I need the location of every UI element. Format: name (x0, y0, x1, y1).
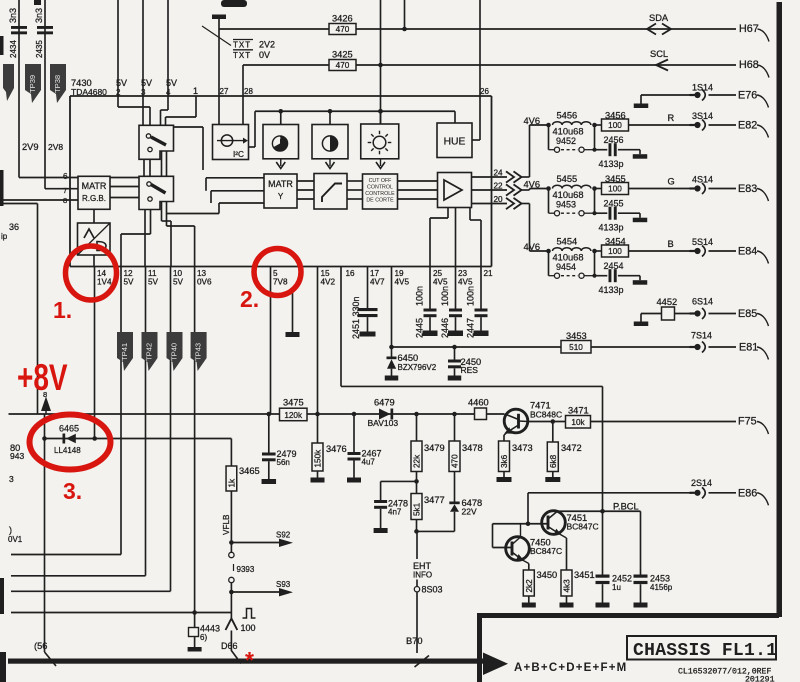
svg-text:100: 100 (608, 247, 622, 256)
svg-text:1: 1 (193, 86, 198, 96)
svg-text:5V: 5V (124, 278, 135, 287)
svg-text:4133p: 4133p (599, 285, 624, 295)
svg-text:470: 470 (336, 61, 350, 70)
svg-text:8: 8 (63, 196, 67, 205)
svg-text:5454: 5454 (557, 237, 578, 247)
svg-text:9452: 9452 (556, 136, 576, 146)
svg-text:4n7: 4n7 (388, 508, 402, 517)
svg-text:100n: 100n (440, 286, 450, 306)
svg-text:3425: 3425 (332, 50, 353, 60)
svg-text:0V: 0V (259, 50, 270, 60)
svg-text:Y: Y (278, 192, 284, 201)
svg-text:4V6: 4V6 (524, 180, 541, 190)
svg-text:5V: 5V (148, 278, 159, 287)
svg-text:CONTROL: CONTROL (367, 185, 393, 191)
svg-text:470: 470 (451, 454, 460, 468)
svg-text:100n: 100n (466, 286, 476, 306)
svg-text:B: B (668, 239, 674, 249)
svg-text:LL4148: LL4148 (54, 446, 81, 455)
svg-text:I²C: I²C (233, 150, 244, 159)
svg-text:2453: 2453 (650, 574, 670, 584)
svg-text:2V9: 2V9 (22, 142, 39, 152)
svg-text:5V: 5V (173, 278, 184, 287)
svg-text:20: 20 (494, 195, 504, 204)
svg-text:2V8: 2V8 (48, 142, 63, 152)
svg-text:TP41: TP41 (120, 343, 129, 361)
svg-text:4V5: 4V5 (395, 278, 410, 287)
svg-text:4133p: 4133p (599, 159, 624, 169)
svg-text:4443: 4443 (200, 624, 220, 634)
svg-text:1u: 1u (612, 583, 621, 592)
svg-text:2456: 2456 (604, 135, 624, 145)
svg-text:5V: 5V (141, 78, 152, 88)
svg-text:3479: 3479 (424, 443, 445, 453)
svg-text:100n: 100n (415, 286, 425, 306)
svg-text:56n: 56n (277, 458, 290, 467)
svg-text:3471: 3471 (568, 406, 589, 416)
svg-text:MATR: MATR (268, 179, 293, 189)
svg-text:2451 330n: 2451 330n (351, 296, 361, 339)
svg-text:8: 8 (43, 390, 47, 399)
svg-text:0V1: 0V1 (8, 535, 23, 544)
svg-text:*: * (245, 647, 254, 673)
svg-text:510: 510 (569, 343, 583, 352)
svg-text:S93: S93 (276, 580, 291, 589)
svg-text:9453: 9453 (556, 200, 576, 210)
svg-text:5V: 5V (116, 78, 127, 88)
svg-text:22V: 22V (462, 507, 477, 517)
svg-text:BC847C: BC847C (530, 546, 562, 556)
svg-text:E81: E81 (739, 342, 758, 354)
svg-text:28: 28 (244, 87, 253, 96)
svg-text:TP38: TP38 (53, 75, 62, 93)
svg-text:2434: 2434 (9, 40, 18, 58)
svg-text:3465: 3465 (239, 466, 260, 476)
svg-text:3: 3 (9, 474, 14, 484)
svg-text:TP42: TP42 (145, 343, 154, 361)
svg-text:943: 943 (10, 451, 24, 461)
svg-text:INFO: INFO (413, 571, 432, 580)
svg-text:3475: 3475 (283, 398, 304, 408)
svg-text:3477: 3477 (424, 495, 445, 505)
svg-text:1k: 1k (228, 478, 237, 488)
svg-text:7S14: 7S14 (691, 331, 712, 341)
svg-text:CHASSIS FL1.1: CHASSIS FL1.1 (633, 641, 777, 661)
svg-text:4V5: 4V5 (458, 278, 473, 287)
svg-text:3478: 3478 (462, 443, 483, 453)
svg-text:D66: D66 (221, 641, 238, 651)
svg-text:4156p: 4156p (650, 583, 673, 592)
svg-text:RES: RES (461, 365, 479, 375)
svg-text:SCL: SCL (650, 49, 668, 59)
svg-text:2.: 2. (240, 286, 259, 312)
svg-text:2k2: 2k2 (525, 579, 534, 593)
svg-text:5k1: 5k1 (413, 502, 422, 516)
svg-text:4460: 4460 (468, 398, 489, 408)
svg-text:26: 26 (480, 87, 489, 96)
svg-text:6S14: 6S14 (692, 297, 713, 307)
svg-text:TXT: TXT (233, 51, 251, 60)
svg-text:22k: 22k (413, 454, 422, 468)
svg-text:1.: 1. (53, 297, 72, 323)
svg-text:201291: 201291 (745, 676, 775, 682)
svg-text:3453: 3453 (566, 331, 587, 341)
svg-text:100: 100 (608, 185, 622, 194)
svg-text:3473: 3473 (512, 443, 533, 453)
svg-text:4V5: 4V5 (433, 278, 448, 287)
svg-text:E85: E85 (738, 308, 757, 320)
svg-text:8S03: 8S03 (422, 585, 443, 595)
svg-text:G: G (668, 177, 675, 187)
svg-text:): ) (9, 525, 12, 535)
svg-text:7: 7 (63, 186, 67, 195)
svg-text:3: 3 (141, 88, 146, 97)
svg-text:6450: 6450 (398, 353, 419, 363)
svg-text:4V2: 4V2 (321, 278, 336, 287)
svg-text:ip: ip (1, 232, 8, 241)
svg-text:EHT: EHT (413, 561, 432, 571)
svg-text:2: 2 (116, 88, 121, 97)
svg-text:10k: 10k (571, 418, 585, 427)
svg-text:3450: 3450 (537, 570, 558, 580)
svg-text:VFLB: VFLB (222, 514, 231, 535)
svg-text:TP40: TP40 (170, 343, 179, 361)
svg-text:3451: 3451 (574, 570, 595, 580)
svg-text:6: 6 (63, 172, 68, 181)
svg-text:A+B+C+D+E+F+M: A+B+C+D+E+F+M (514, 662, 627, 674)
svg-text:E76: E76 (738, 90, 757, 102)
svg-text:21: 21 (484, 269, 494, 278)
svg-text:3k6: 3k6 (500, 454, 509, 468)
svg-text:4V7: 4V7 (370, 278, 385, 287)
svg-text:HUE: HUE (444, 137, 466, 148)
svg-text:H67: H67 (739, 23, 759, 35)
svg-text:9454: 9454 (556, 262, 576, 272)
svg-text:2447: 2447 (466, 318, 476, 338)
svg-text:6k8: 6k8 (549, 454, 558, 468)
svg-text:MATR: MATR (82, 181, 107, 191)
svg-text:E83: E83 (738, 183, 757, 195)
svg-text:4133p: 4133p (599, 223, 624, 233)
svg-text:4k3: 4k3 (563, 579, 572, 593)
svg-text:6): 6) (200, 633, 207, 642)
svg-text:3426: 3426 (332, 14, 353, 24)
svg-text:3476: 3476 (326, 444, 347, 454)
svg-text:410u68: 410u68 (553, 190, 584, 200)
svg-text:3.: 3. (63, 478, 82, 504)
svg-text:6479: 6479 (374, 398, 395, 408)
svg-text:4452: 4452 (657, 297, 678, 307)
svg-text:E86: E86 (738, 487, 757, 499)
svg-text:E84: E84 (738, 246, 757, 258)
svg-text:BC848C: BC848C (530, 410, 562, 420)
svg-text:4u7: 4u7 (362, 458, 376, 467)
svg-text:E82: E82 (738, 120, 757, 132)
svg-text:2454: 2454 (604, 261, 624, 271)
svg-text:410u68: 410u68 (553, 253, 584, 263)
svg-text:24: 24 (494, 169, 504, 178)
svg-text:BAV103: BAV103 (368, 418, 399, 428)
svg-text:27: 27 (220, 87, 229, 96)
svg-text:120k: 120k (284, 411, 303, 420)
svg-text:3472: 3472 (561, 443, 582, 453)
svg-text:R.G.B.: R.G.B. (82, 194, 106, 203)
svg-text:SDA: SDA (649, 13, 669, 23)
svg-text:CONTROLE: CONTROLE (365, 191, 395, 197)
svg-text:0V6: 0V6 (197, 278, 212, 287)
svg-text:2452: 2452 (612, 574, 632, 584)
svg-text:5456: 5456 (557, 111, 578, 121)
svg-text:S92: S92 (276, 531, 291, 540)
svg-text:2445: 2445 (415, 318, 425, 338)
svg-text:150k: 150k (314, 449, 323, 468)
svg-text:410u68: 410u68 (553, 127, 584, 137)
svg-text:DE CORTE: DE CORTE (366, 198, 394, 204)
svg-text:P.BCL: P.BCL (613, 502, 639, 512)
svg-text:36: 36 (9, 222, 19, 232)
svg-text:R: R (668, 113, 675, 123)
svg-text:H68: H68 (739, 59, 759, 71)
svg-text:2S14: 2S14 (691, 478, 712, 488)
svg-text:CUT OFF: CUT OFF (369, 178, 393, 184)
svg-text:2455: 2455 (604, 199, 624, 209)
svg-text:F75: F75 (738, 416, 757, 428)
svg-text:B70: B70 (406, 636, 423, 646)
svg-text:1V4: 1V4 (97, 278, 112, 287)
svg-text:2446: 2446 (440, 318, 450, 338)
svg-text:470: 470 (336, 25, 350, 34)
svg-text:2V2: 2V2 (259, 40, 275, 50)
svg-text:TXT: TXT (233, 41, 251, 50)
svg-text:4: 4 (166, 88, 171, 97)
svg-text:TP43: TP43 (194, 343, 203, 361)
svg-text:100: 100 (241, 623, 256, 633)
svg-text:16: 16 (346, 269, 356, 278)
svg-text:2435: 2435 (35, 40, 44, 58)
svg-text:6465: 6465 (59, 424, 79, 434)
svg-text:5455: 5455 (557, 174, 578, 184)
svg-text:7V8: 7V8 (273, 278, 288, 287)
svg-text:TP39: TP39 (28, 75, 37, 93)
svg-text:BC847C: BC847C (567, 522, 599, 532)
svg-text:100: 100 (608, 121, 622, 130)
svg-text:9393: 9393 (237, 565, 255, 574)
svg-text:(56: (56 (34, 641, 47, 651)
svg-text:BZX796V2: BZX796V2 (398, 363, 437, 372)
svg-text:5V: 5V (166, 78, 177, 88)
svg-text:3n3: 3n3 (8, 8, 18, 23)
svg-text:3n3: 3n3 (34, 8, 44, 23)
svg-text:22: 22 (494, 182, 504, 191)
